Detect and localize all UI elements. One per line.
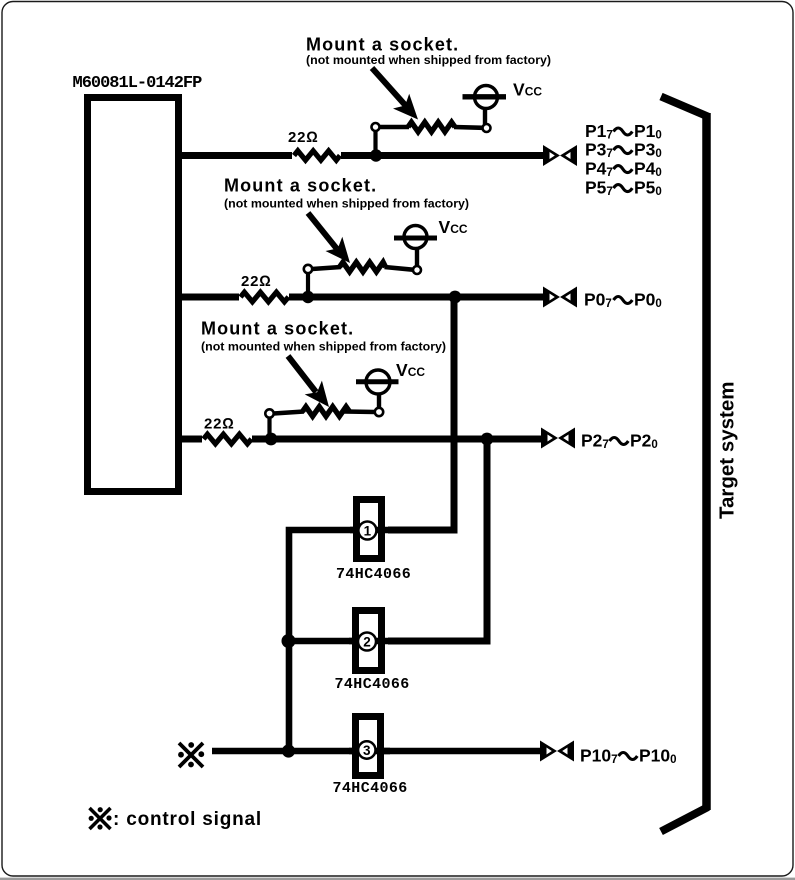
svg-text:(not mounted when shipped from: (not mounted when shipped from factory) bbox=[201, 340, 446, 354]
power Vcc symbol row2 bbox=[394, 217, 468, 266]
svg-text:3: 3 bbox=[363, 743, 371, 758]
label: Mount a socket. (row3) bbox=[201, 319, 446, 354]
connector row3 bbox=[541, 428, 575, 449]
svg-text:Mount a socket.: Mount a socket. bbox=[201, 319, 354, 339]
annotation arrow row3 bbox=[288, 356, 329, 407]
svg-text:: control signal: : control signal bbox=[113, 809, 262, 830]
socket resistor RS1 (mount a socket) bbox=[372, 122, 491, 153]
resistor R1 22ohm bbox=[288, 129, 340, 160]
resistor R3 22ohm bbox=[204, 416, 252, 444]
node junction row2 left bbox=[302, 291, 314, 303]
node P10 label bbox=[580, 746, 677, 767]
label: Mount a socket. (row1) bbox=[306, 34, 551, 67]
power Vcc symbol row3 bbox=[356, 360, 425, 408]
label: Mount a socket. (row2) bbox=[224, 176, 469, 211]
svg-text:(not mounted when shipped from: (not mounted when shipped from factory) bbox=[306, 53, 551, 67]
legend: control signal note bbox=[89, 807, 262, 830]
svg-text:Mount a socket.: Mount a socket. bbox=[306, 34, 459, 54]
socket resistor RS3 bbox=[265, 407, 383, 436]
node junction left bus bbox=[282, 634, 296, 648]
wire control signal to switch 3 bbox=[212, 748, 355, 755]
wire row3 from U1 to connector bbox=[180, 436, 546, 443]
svg-text:Mount a socket.: Mount a socket. bbox=[224, 176, 377, 196]
svg-text:M60081L-0142FP: M60081L-0142FP bbox=[73, 74, 203, 93]
node P2 label bbox=[581, 431, 658, 452]
wire row1 from U1 to connector bbox=[180, 152, 546, 159]
node P4 label bbox=[585, 159, 662, 180]
node junction row1 bbox=[370, 149, 382, 161]
svg-text:(not mounted when shipped from: (not mounted when shipped from factory) bbox=[224, 197, 469, 211]
wire left bus to switches bbox=[289, 530, 353, 748]
wire from row3 node down to switch 2 bbox=[388, 439, 487, 641]
node P3 label bbox=[585, 140, 662, 161]
power Vcc symbol row1 bbox=[463, 80, 543, 125]
annotation arrow row2 bbox=[308, 213, 350, 263]
node junction bottom of left bus bbox=[282, 744, 295, 757]
wire from row2 node down to switch 1 bbox=[388, 297, 454, 530]
svg-text:22Ω: 22Ω bbox=[204, 416, 235, 433]
svg-text:22Ω: 22Ω bbox=[288, 129, 319, 146]
node P5 label bbox=[585, 178, 662, 199]
wire switch 3 to connector bbox=[384, 748, 546, 755]
node junction row3 right bbox=[481, 433, 494, 446]
connector row4 bbox=[540, 741, 574, 762]
analog switch U2 74HC4066 bbox=[336, 500, 411, 584]
svg-text:74HC4066: 74HC4066 bbox=[333, 780, 408, 797]
node junction row3 left bbox=[265, 433, 278, 446]
svg-text:1: 1 bbox=[364, 523, 372, 538]
svg-text:22Ω: 22Ω bbox=[241, 273, 272, 290]
connector row2 bbox=[543, 287, 577, 308]
wire row2 from U1 to connector bbox=[180, 294, 546, 301]
connector row1 bbox=[543, 145, 577, 166]
analog switch U3 74HC4066 bbox=[335, 611, 410, 694]
node P0 label bbox=[584, 290, 662, 311]
svg-text:Target system: Target system bbox=[716, 382, 739, 519]
svg-text:74HC4066: 74HC4066 bbox=[336, 566, 411, 583]
IC U1 M60081L-0142FP bbox=[73, 74, 203, 492]
node P1 label bbox=[585, 121, 662, 142]
analog switch U4 74HC4066 bbox=[333, 717, 408, 798]
control signal mark bbox=[178, 742, 204, 767]
socket resistor RS2 bbox=[304, 262, 421, 294]
bracket target system bbox=[661, 97, 709, 832]
node junction row2 right bbox=[449, 291, 462, 304]
annotation arrow row1 bbox=[372, 68, 418, 120]
resistor R2 22ohm bbox=[241, 273, 289, 302]
svg-text:74HC4066: 74HC4066 bbox=[335, 676, 410, 693]
svg-text:2: 2 bbox=[363, 634, 371, 649]
label: Target system bbox=[716, 382, 739, 519]
